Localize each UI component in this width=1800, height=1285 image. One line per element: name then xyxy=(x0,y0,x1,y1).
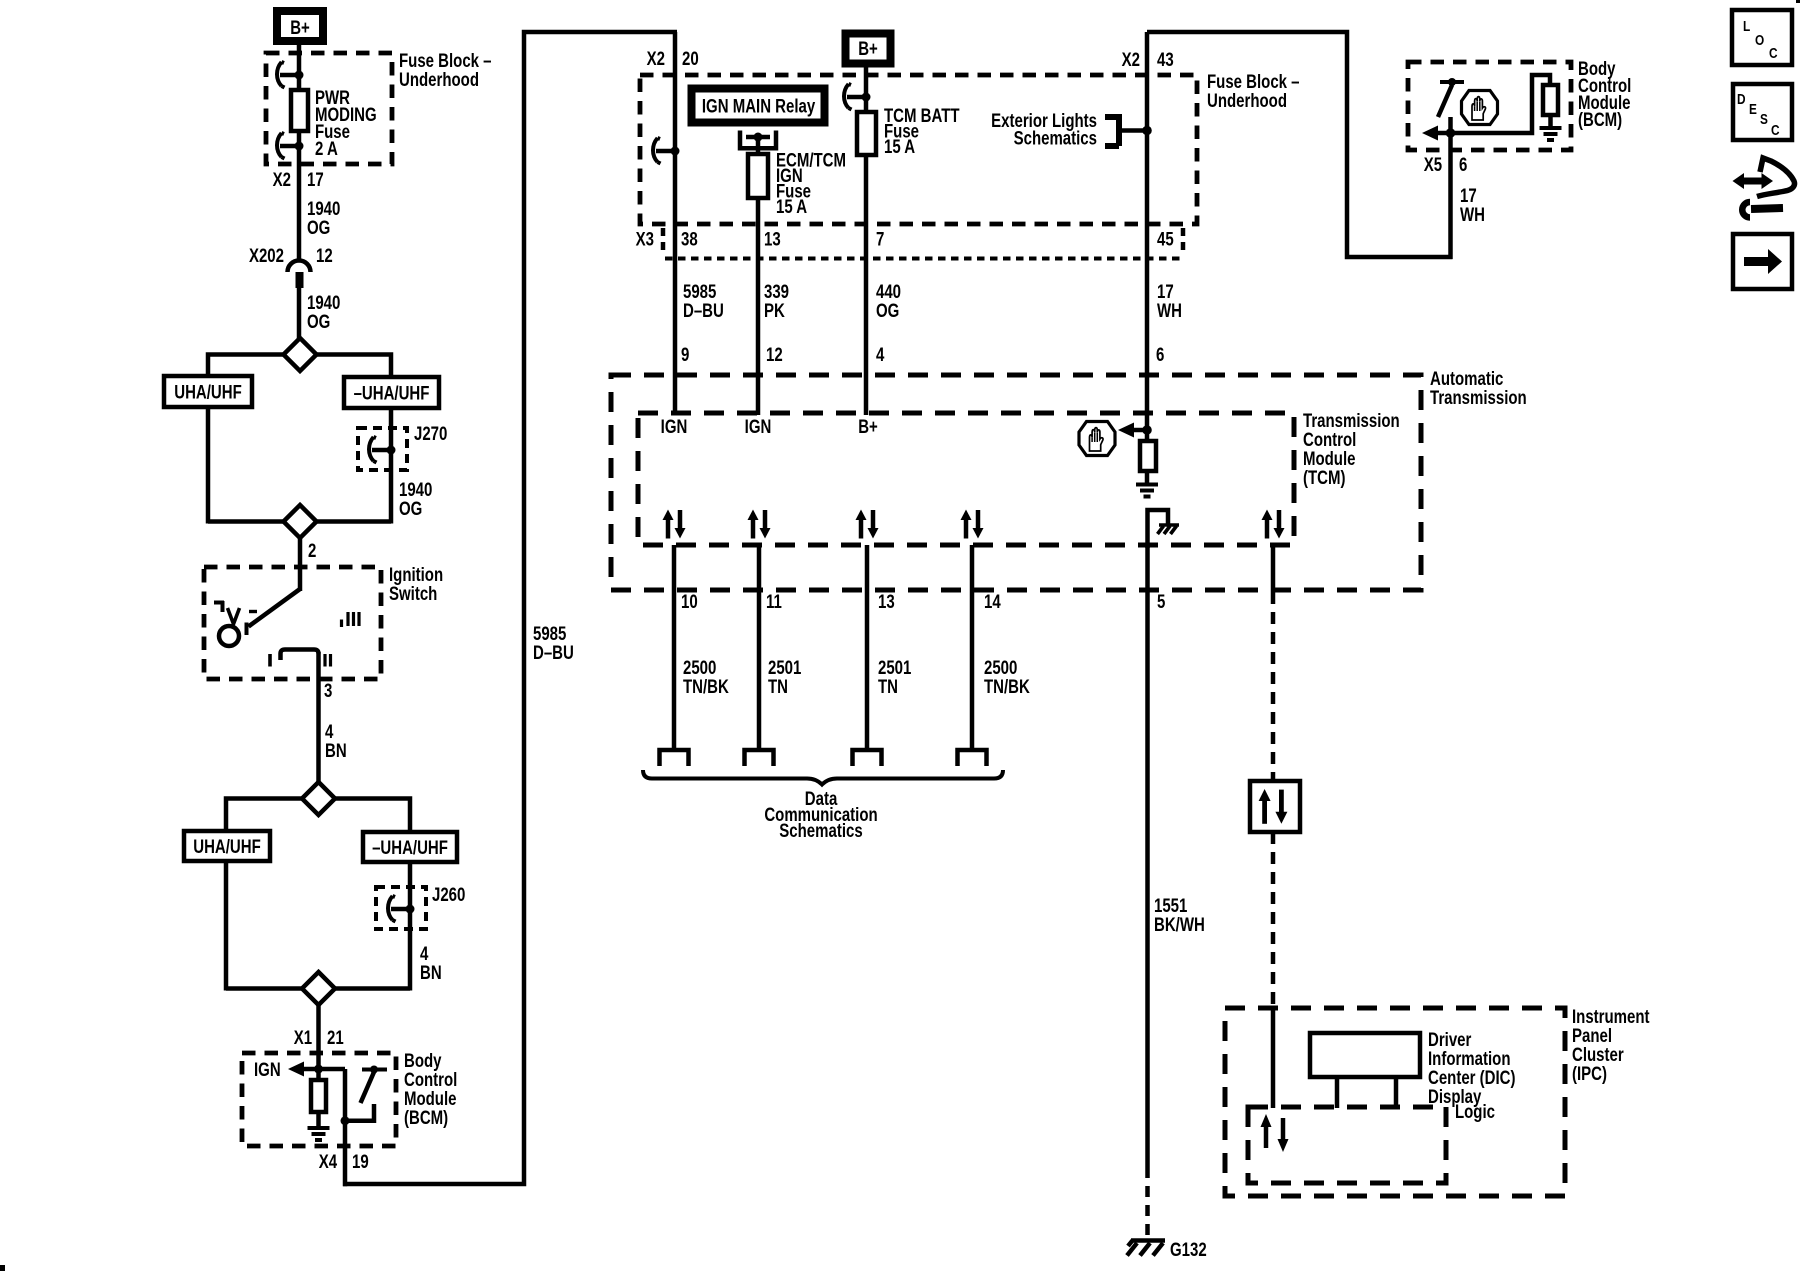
resistor in TCM xyxy=(1140,441,1156,484)
ignition switch position mark III xyxy=(342,612,360,627)
wire B+ to TCM BATT fuse xyxy=(864,67,869,114)
svg-text:Driver: Driver xyxy=(1428,1029,1472,1050)
fuse block underhood (center) dashed box xyxy=(640,71,1300,224)
svg-text:IGN: IGN xyxy=(254,1059,281,1080)
svg-text:2501: 2501 xyxy=(768,657,802,678)
svg-text:6: 6 xyxy=(1156,344,1164,365)
svg-text:4: 4 xyxy=(420,943,429,964)
svg-text:Control: Control xyxy=(1303,429,1356,450)
wire label 2500 TN/BK (pin 10) xyxy=(683,657,729,697)
ignition switch position mark II xyxy=(325,654,331,667)
merge diamond (upper pair) xyxy=(208,505,391,538)
wire UHA/UHF down to lower merge diamond xyxy=(224,861,229,991)
fuse block underhood (left) dashed box xyxy=(266,53,392,164)
node junction on pin 21 wire xyxy=(314,1065,323,1074)
svg-text:11: 11 xyxy=(766,591,782,612)
svg-text:X4: X4 xyxy=(319,1151,338,1172)
dashed wire to ground G132 xyxy=(1145,1186,1150,1237)
svg-text:Panel: Panel xyxy=(1572,1025,1612,1046)
svg-text:Body: Body xyxy=(404,1050,442,1071)
wire pin X4 19 out of BCM xyxy=(319,1069,369,1186)
svg-text:(BCM): (BCM) xyxy=(404,1107,448,1128)
wire label 440 OG xyxy=(876,281,901,321)
svg-text:Cluster: Cluster xyxy=(1572,1044,1624,1065)
driver information center DIC display xyxy=(1310,1029,1516,1108)
svg-text:O: O xyxy=(1755,32,1764,49)
wire node 2 into ignition switch xyxy=(300,537,316,591)
label Exterior Lights Schematics tap xyxy=(991,110,1147,149)
body control module BCM dashed box (top right) xyxy=(1408,58,1631,150)
svg-text:15 A: 15 A xyxy=(884,136,915,157)
connector X3 row xyxy=(636,228,1183,259)
svg-text:Schematics: Schematics xyxy=(779,820,862,841)
svg-text:2 A: 2 A xyxy=(315,138,338,159)
svg-text:Information: Information xyxy=(1428,1048,1510,1069)
node junction at X5 wire xyxy=(1446,128,1456,138)
svg-text:17: 17 xyxy=(307,169,324,190)
svg-text:440: 440 xyxy=(876,281,901,302)
wire UHA/UHF down to merge diamond xyxy=(206,407,211,524)
svg-text:2: 2 xyxy=(308,540,316,561)
svg-text:L: L xyxy=(1743,18,1750,35)
svg-text:Instrument: Instrument xyxy=(1572,1006,1650,1027)
icon harness routing arrows and wrench xyxy=(1733,158,1795,218)
switch in BCM (top right) xyxy=(1438,78,1464,133)
internal IGN signal arrow xyxy=(254,1059,345,1080)
wire label 2500 TN/BK (pin 14) xyxy=(984,657,1030,697)
wire label 4 BN (J260 output) xyxy=(420,943,442,983)
splice J270 dashed box xyxy=(358,423,447,470)
svg-text:G132: G132 xyxy=(1170,1239,1207,1260)
battery feed B+ (center) xyxy=(846,34,891,64)
svg-text:Fuse Block –: Fuse Block – xyxy=(1207,71,1300,92)
transmission control module TCM dashed box xyxy=(638,410,1400,545)
svg-text:B+: B+ xyxy=(858,416,878,437)
wire serial data inside IPC xyxy=(1271,1008,1276,1108)
icon box forward arrow xyxy=(1733,234,1792,289)
wire route BCM 19 up the page left rail xyxy=(343,32,677,1184)
logic dashed box xyxy=(1248,1101,1495,1183)
serial data arrows pin 11 xyxy=(748,510,771,539)
option box -UHA/UHF (upper) xyxy=(344,377,439,408)
merge diamond (lower pair) xyxy=(226,972,410,1005)
svg-text:TN: TN xyxy=(878,676,898,697)
relay output terminal cup xyxy=(740,131,776,157)
chassis ground at pin 5 xyxy=(1148,510,1180,548)
svg-text:B+: B+ xyxy=(858,38,878,59)
svg-text:45: 45 xyxy=(1157,229,1174,250)
svg-text:10: 10 xyxy=(681,591,698,612)
wire label 1940 OG (upper) xyxy=(307,198,340,238)
ignition switch position mark I xyxy=(268,654,272,667)
automatic transmission outer dashed box xyxy=(611,368,1527,590)
svg-text:IGN: IGN xyxy=(745,416,772,437)
fuse PWR MODING 2A xyxy=(291,87,377,159)
battery feed B+ (left) xyxy=(277,11,323,41)
svg-text:Module: Module xyxy=(1303,448,1355,469)
svg-text:TN/BK: TN/BK xyxy=(683,676,729,697)
terminal hook at fuse output xyxy=(277,133,304,159)
wire diamond to -UHA/UHF (right branch) xyxy=(316,355,391,378)
wire route top right rail to BCM X5 xyxy=(1147,32,1453,257)
svg-text:(TCM): (TCM) xyxy=(1303,467,1345,488)
svg-text:X3: X3 xyxy=(636,229,654,250)
pin labels 38 13 7 45 xyxy=(681,229,1174,250)
svg-text:20: 20 xyxy=(682,48,699,69)
park brake hand icon in TCM xyxy=(1079,422,1115,456)
svg-text:S: S xyxy=(1760,111,1768,128)
wire pin 13 to data link xyxy=(865,545,870,751)
pin labels 9 12 4 6 xyxy=(681,344,1164,365)
svg-text:PK: PK xyxy=(764,300,785,321)
fuse TCM BATT 15A xyxy=(857,105,960,157)
terminal pin 11 xyxy=(745,750,774,766)
wire serial data branch stub xyxy=(1271,545,1276,592)
wire pin 4 down to TCM xyxy=(864,155,869,415)
svg-text:WH: WH xyxy=(1460,204,1485,225)
svg-text:OG: OG xyxy=(876,300,899,321)
svg-text:13: 13 xyxy=(878,591,895,612)
svg-text:Transmission: Transmission xyxy=(1303,410,1400,431)
svg-text:D–BU: D–BU xyxy=(683,300,724,321)
svg-text:339: 339 xyxy=(764,281,789,302)
wire 4 BN to lower splice xyxy=(319,711,347,783)
icon box LOC xyxy=(1732,10,1792,65)
brace data communication schematics xyxy=(643,770,1003,841)
terminal pin 14 xyxy=(958,750,987,766)
splice diamond (lower) xyxy=(302,782,335,815)
wire label 1551 BK/WH xyxy=(1154,895,1205,935)
svg-text:Fuse Block –: Fuse Block – xyxy=(399,50,492,71)
wire pin 14 to data link xyxy=(970,545,975,751)
svg-text:Module: Module xyxy=(404,1088,456,1109)
wire label 1940 OG (J270 output) xyxy=(399,479,432,519)
node junction exterior lights tap xyxy=(1142,126,1152,136)
svg-text:2500: 2500 xyxy=(984,657,1017,678)
svg-text:17: 17 xyxy=(1157,281,1174,302)
svg-text:12: 12 xyxy=(316,245,333,266)
pin labels 10 11 13 14 5 xyxy=(681,591,1166,612)
resistor to ground in BCM (top right) xyxy=(1451,75,1559,133)
wire label 5985 D-BU xyxy=(683,281,724,321)
svg-text:Center (DIC): Center (DIC) xyxy=(1428,1067,1516,1088)
wire -UHA/UHF down to splice J260 xyxy=(408,862,413,991)
svg-text:IGN MAIN Relay: IGN MAIN Relay xyxy=(702,96,816,117)
ground G132 xyxy=(1127,1239,1207,1260)
svg-text:14: 14 xyxy=(984,591,1001,612)
svg-text:X5: X5 xyxy=(1424,154,1443,175)
svg-text:2501: 2501 xyxy=(878,657,912,678)
relay IGN MAIN Relay xyxy=(692,89,825,123)
svg-text:21: 21 xyxy=(327,1027,344,1048)
svg-text:E: E xyxy=(1749,101,1757,118)
option box UHA/UHF (upper) xyxy=(164,376,252,407)
wire pin 11 to data link xyxy=(757,545,762,751)
svg-text:1551: 1551 xyxy=(1154,895,1188,916)
svg-text:UHA/UHF: UHA/UHF xyxy=(193,836,260,857)
fuse ECM/TCM IGN 15A xyxy=(748,150,846,218)
label Fuse Block - Underhood (left) xyxy=(399,50,492,90)
svg-text:1940: 1940 xyxy=(307,198,340,219)
svg-text:Switch: Switch xyxy=(389,583,437,604)
svg-text:1940: 1940 xyxy=(399,479,432,500)
serial data arrows pin 10 xyxy=(663,510,686,539)
svg-text:OG: OG xyxy=(307,217,330,238)
terminal hook on B+ wire xyxy=(844,84,871,110)
ignition switch dashed box xyxy=(204,564,443,679)
svg-text:5985: 5985 xyxy=(683,281,717,302)
svg-text:–UHA/UHF: –UHA/UHF xyxy=(354,383,430,404)
wire diamond to -UHA/UHF (lower right branch) xyxy=(335,799,411,833)
svg-text:Underhood: Underhood xyxy=(399,69,479,90)
svg-text:X1: X1 xyxy=(294,1027,313,1048)
svg-text:4: 4 xyxy=(876,344,885,365)
wire label 2501 TN (pin 13) xyxy=(878,657,912,697)
svg-text:C: C xyxy=(1771,122,1780,139)
resistor in BCM xyxy=(311,1069,326,1127)
svg-text:TN/BK: TN/BK xyxy=(984,676,1030,697)
icon box DESC xyxy=(1733,84,1792,140)
svg-text:X2: X2 xyxy=(273,169,291,190)
svg-text:Logic: Logic xyxy=(1455,1101,1495,1122)
wire label 2501 TN (pin 11) xyxy=(768,657,802,697)
dashed serial data wire arrow box to IPC xyxy=(1271,832,1276,1009)
svg-text:J260: J260 xyxy=(432,884,465,905)
svg-text:Automatic: Automatic xyxy=(1430,368,1504,389)
svg-text:OG: OG xyxy=(399,498,422,519)
wire label 17 WH xyxy=(1157,281,1182,321)
body control module BCM dashed box (bottom left) xyxy=(242,1050,457,1146)
svg-text:4: 4 xyxy=(325,721,334,742)
wire -UHA/UHF down to splice J270 xyxy=(389,408,394,524)
page mark bottom left xyxy=(0,1265,5,1271)
svg-text:13: 13 xyxy=(764,229,781,250)
svg-text:BN: BN xyxy=(420,962,442,983)
wire node 3 out of ignition switch xyxy=(319,652,333,711)
switch in BCM xyxy=(346,1066,387,1121)
dashed serial data wire TCM to arrow box xyxy=(1271,592,1276,781)
wire diamond to UHA/UHF (lower left branch) xyxy=(226,799,303,832)
svg-text:(IPC): (IPC) xyxy=(1572,1063,1607,1084)
serial data arrow box xyxy=(1250,781,1300,832)
svg-text:1940: 1940 xyxy=(307,292,340,313)
serial data arrows pin 13 xyxy=(856,510,879,539)
svg-text:OG: OG xyxy=(307,311,330,332)
svg-text:Transmission: Transmission xyxy=(1430,387,1527,408)
wire label 17 WH (right) xyxy=(1460,185,1485,225)
wire pin X2 20 down into fuse block xyxy=(647,32,699,415)
svg-text:B+: B+ xyxy=(290,17,310,38)
svg-text:X2: X2 xyxy=(1122,49,1140,70)
wire fuse to connector X202 xyxy=(297,131,302,259)
signal arrow into hand icon xyxy=(1118,423,1147,438)
wire pin X2 43 down through fuse block xyxy=(1122,32,1174,443)
svg-text:19: 19 xyxy=(352,1151,369,1172)
svg-text:3: 3 xyxy=(324,680,332,701)
wire label 1940 OG (below X202) xyxy=(307,292,340,332)
svg-text:Control: Control xyxy=(404,1069,457,1090)
svg-text:5: 5 xyxy=(1157,591,1166,612)
wire pin 5 ground lead xyxy=(1145,546,1150,1178)
ground in TCM xyxy=(1136,485,1158,497)
svg-text:(BCM): (BCM) xyxy=(1578,109,1622,130)
svg-text:7: 7 xyxy=(876,229,884,250)
node junction on pin 6 wire xyxy=(1142,425,1152,435)
svg-text:Underhood: Underhood xyxy=(1207,90,1287,111)
svg-text:17: 17 xyxy=(1460,185,1477,206)
internal signal arrow left xyxy=(1422,126,1450,141)
ignition switch movable arm xyxy=(247,589,301,635)
wire pin X1 21 into BCM xyxy=(294,1004,344,1070)
option box UHA/UHF (lower) xyxy=(184,831,270,861)
wire label 5985 D-BU (rail) xyxy=(533,623,574,663)
page mark top right xyxy=(1796,0,1800,3)
serial data arrows in logic box xyxy=(1261,1114,1289,1152)
terminal hook at fuse input xyxy=(277,62,304,88)
svg-text:UHA/UHF: UHA/UHF xyxy=(174,382,241,403)
svg-text:Ignition: Ignition xyxy=(389,564,443,585)
option box -UHA/UHF (lower) xyxy=(363,832,457,862)
serial data arrows pin at IPC branch xyxy=(1262,510,1285,539)
svg-text:WH: WH xyxy=(1157,300,1182,321)
wire label 339 PK xyxy=(764,281,789,321)
terminal pin 13 xyxy=(853,750,882,766)
svg-text:D–BU: D–BU xyxy=(533,642,574,663)
splice hook inside J260 xyxy=(388,896,415,922)
svg-text:BK/WH: BK/WH xyxy=(1154,914,1205,935)
ignition switch pivot contact circle xyxy=(219,626,239,646)
wire diamond to UHA/UHF (left branch) xyxy=(208,355,284,377)
svg-text:38: 38 xyxy=(681,229,698,250)
ground in BCM (top right) xyxy=(1540,128,1562,140)
serial data arrows pin 14 xyxy=(961,510,984,539)
svg-text:TN: TN xyxy=(768,676,788,697)
splice hook inside J270 xyxy=(369,437,396,463)
terminal pin 10 xyxy=(660,750,689,766)
svg-text:X202: X202 xyxy=(249,245,284,266)
svg-text:9: 9 xyxy=(681,344,689,365)
svg-text:X2: X2 xyxy=(647,48,665,69)
svg-text:2500: 2500 xyxy=(683,657,716,678)
svg-text:BN: BN xyxy=(325,740,347,761)
svg-text:Schematics: Schematics xyxy=(1014,128,1097,149)
wire B+ to PWR MODING fuse xyxy=(297,45,302,90)
terminal hook on X2 20 wire xyxy=(653,138,680,164)
svg-text:43: 43 xyxy=(1157,49,1174,70)
ignition switch position mark IV xyxy=(214,601,257,624)
connector X202 pin 12 xyxy=(249,245,333,288)
svg-text:IGN: IGN xyxy=(661,416,688,437)
wire pin 10 to data link xyxy=(672,545,677,751)
splice J260 dashed box xyxy=(376,884,465,929)
svg-text:12: 12 xyxy=(766,344,783,365)
park brake hand icon in BCM xyxy=(1462,91,1498,125)
instrument panel cluster IPC dashed box xyxy=(1225,1006,1650,1196)
svg-text:D: D xyxy=(1737,91,1746,108)
node junction at switch output xyxy=(341,1116,350,1125)
svg-text:J270: J270 xyxy=(414,423,447,444)
svg-text:C: C xyxy=(1769,45,1778,62)
wire X202 to splice diamond xyxy=(297,288,302,340)
svg-text:6: 6 xyxy=(1459,154,1467,175)
svg-text:15 A: 15 A xyxy=(776,196,807,217)
pin label X2 17 xyxy=(273,169,324,190)
ground in BCM xyxy=(308,1128,330,1140)
svg-text:5985: 5985 xyxy=(533,623,567,644)
wire pin 12 down to TCM xyxy=(756,198,761,415)
ignition switch contact bracket (RUN) xyxy=(281,650,319,661)
splice diamond (upper) xyxy=(284,338,317,371)
wire pin X5 6 down from BCM xyxy=(1424,133,1468,259)
svg-text:–UHA/UHF: –UHA/UHF xyxy=(372,837,448,858)
